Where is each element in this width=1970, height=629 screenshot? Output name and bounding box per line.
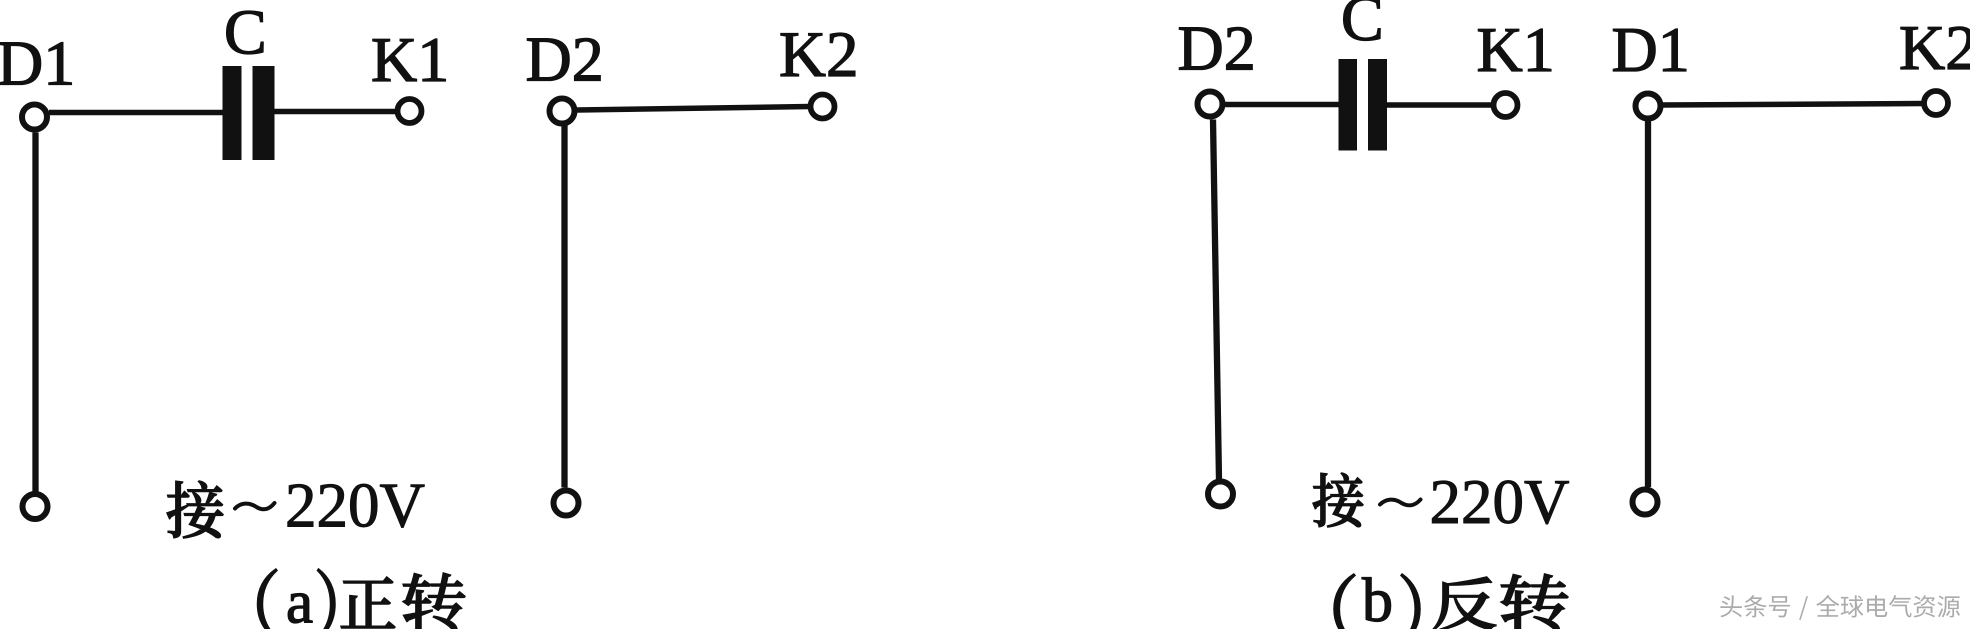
svg-text:K2: K2 <box>1899 12 1970 83</box>
svg-text:K2: K2 <box>779 19 858 91</box>
wire D2 to capacitor C (circuit b) <box>1224 102 1341 108</box>
terminal K2 (circuit a) <box>811 95 835 119</box>
wire D2 down to supply terminal (circuit b) <box>1213 120 1219 481</box>
svg-text:K1: K1 <box>1477 14 1555 85</box>
wire D1 to K2 (circuit b) <box>1662 104 1924 106</box>
capacitor C right plate (circuit b) <box>1368 59 1387 151</box>
svg-text:D1: D1 <box>0 28 75 99</box>
svg-text:a: a <box>286 570 313 629</box>
terminal D2 (circuit b) <box>1198 92 1223 117</box>
label tilde of 接～220V (circuit a) <box>235 503 275 509</box>
caption zhuan (rotation) (circuit b) <box>1501 574 1568 629</box>
caption closing paren (circuit a) <box>318 569 335 629</box>
wire capacitor C to K1 (circuit a) <box>273 109 397 115</box>
supply terminal below D1 (circuit a) <box>23 494 48 519</box>
label jie (connect) of 接～220V (circuit a) <box>167 481 223 538</box>
terminal K2 (circuit b) <box>1924 91 1948 115</box>
supply terminal below D2 (circuit a) <box>554 491 579 516</box>
svg-text:b: b <box>1362 567 1393 629</box>
caption zheng (forward) (circuit a) <box>341 577 395 628</box>
svg-text:D1: D1 <box>1612 14 1690 85</box>
svg-text:D2: D2 <box>1178 13 1256 84</box>
svg-text:D2: D2 <box>526 24 604 95</box>
wire D2 to K2 (circuit a) <box>577 107 810 111</box>
svg-text:C: C <box>224 0 267 68</box>
svg-text:K1: K1 <box>371 24 449 95</box>
svg-text:220V: 220V <box>1430 467 1570 537</box>
terminal D1 (circuit b) <box>1636 94 1661 119</box>
supply terminal below D1 (circuit b) <box>1633 490 1658 515</box>
caption opening paren (circuit b) <box>1334 574 1355 629</box>
wire D2 down to supply terminal (circuit a) <box>561 126 567 488</box>
terminal D1 (circuit a) <box>22 105 47 130</box>
wire capacitor C to K1 (circuit b) <box>1387 102 1494 108</box>
supply terminal below D2 (circuit b) <box>1208 482 1233 507</box>
capacitor C left plate (circuit b) <box>1339 59 1358 151</box>
terminal D2 (circuit a) <box>550 99 575 124</box>
wire D1 to capacitor C (circuit a) <box>49 110 224 116</box>
label tilde of 接～220V (circuit b) <box>1380 500 1421 506</box>
terminal K1 (circuit b) <box>1494 93 1518 117</box>
caption fan (reverse) (circuit b) <box>1433 577 1496 629</box>
svg-text:220V: 220V <box>285 471 425 541</box>
watermark 头条号 / 全球电气资源 white emboss layer <box>1722 597 1962 622</box>
wire D1 down to supply terminal (circuit a) <box>32 133 38 493</box>
caption closing paren (circuit b) <box>1401 574 1420 629</box>
label jie (connect) of 接～220V (circuit b) <box>1313 473 1363 527</box>
terminal K1 (circuit a) <box>398 99 422 123</box>
capacitor C left plate (circuit a) <box>223 66 242 160</box>
watermark 头条号 / 全球电气资源 gray text layer <box>1720 595 1960 620</box>
wire D1 down to supply terminal (circuit b) <box>1645 120 1651 487</box>
capacitor C right plate (circuit a) <box>253 66 275 160</box>
svg-text:C: C <box>1341 0 1384 54</box>
caption opening paren (circuit a) <box>257 569 276 629</box>
caption zhuan (rotation) (circuit a) <box>403 573 465 629</box>
